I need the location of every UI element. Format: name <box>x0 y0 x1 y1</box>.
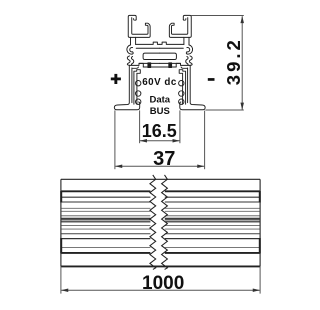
svg-text:39.2: 39.2 <box>223 37 244 85</box>
thickened edge segments <box>61 191 260 253</box>
outline rect <box>61 178 260 180</box>
label plus <box>111 74 215 84</box>
svg-text:1000: 1000 <box>142 273 184 294</box>
svg-text:37: 37 <box>153 148 175 170</box>
svg-text:60V dc: 60V dc <box>142 77 177 88</box>
label minus <box>208 78 215 81</box>
side view surface lines <box>61 191 259 253</box>
svg-text:16.5: 16.5 <box>142 121 177 141</box>
svg-text:Data: Data <box>150 94 171 105</box>
break zigzags <box>150 175 168 270</box>
svg-text:BUS: BUS <box>150 106 170 117</box>
